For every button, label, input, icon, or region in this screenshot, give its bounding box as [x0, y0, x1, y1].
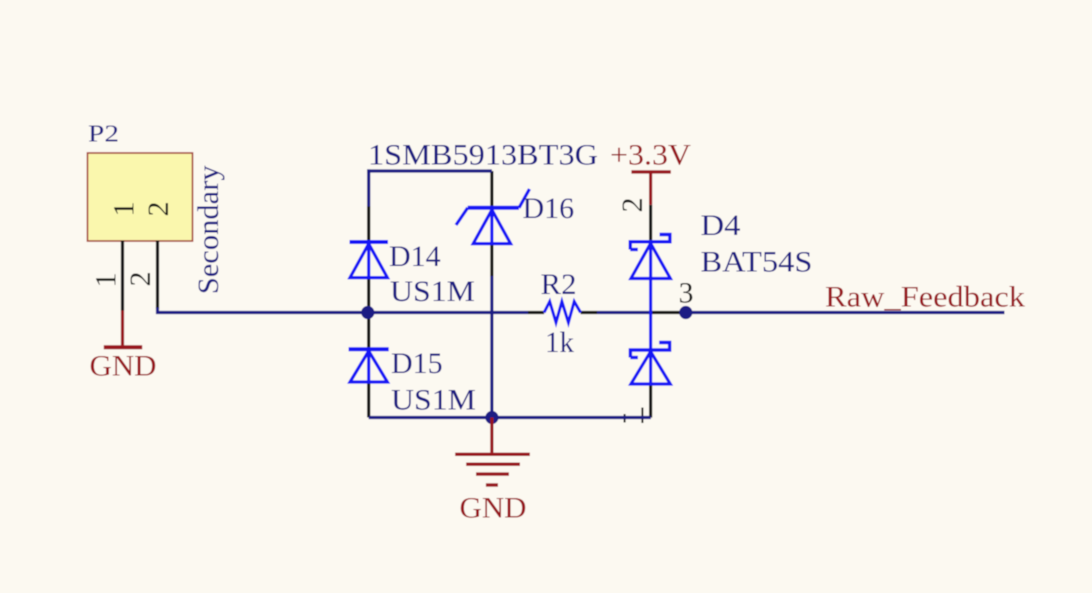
svg-text:2: 2 — [124, 272, 157, 287]
svg-text:2: 2 — [142, 202, 175, 217]
svg-text:P2: P2 — [88, 122, 119, 148]
svg-text:2: 2 — [616, 198, 649, 213]
svg-text:1k: 1k — [545, 326, 574, 359]
svg-text:1: 1 — [90, 273, 123, 288]
svg-text:3: 3 — [679, 277, 694, 310]
svg-text:1SMB5913BT3G: 1SMB5913BT3G — [368, 139, 598, 172]
svg-text:GND: GND — [460, 492, 527, 525]
svg-text:BAT54S: BAT54S — [701, 246, 813, 279]
svg-text:Raw_Feedback: Raw_Feedback — [825, 281, 1025, 314]
svg-text:D4: D4 — [701, 209, 741, 242]
svg-text:1: 1 — [108, 202, 141, 217]
svg-text:D16: D16 — [523, 192, 575, 225]
svg-text:D14: D14 — [389, 240, 441, 273]
svg-text:D15: D15 — [391, 347, 443, 380]
svg-text:US1M: US1M — [391, 384, 476, 417]
svg-text:+3.3V: +3.3V — [610, 139, 691, 172]
svg-text:R2: R2 — [541, 268, 577, 301]
svg-text:US1M: US1M — [390, 275, 475, 308]
svg-text:GND: GND — [90, 350, 157, 383]
svg-text:Secondary: Secondary — [192, 165, 225, 294]
